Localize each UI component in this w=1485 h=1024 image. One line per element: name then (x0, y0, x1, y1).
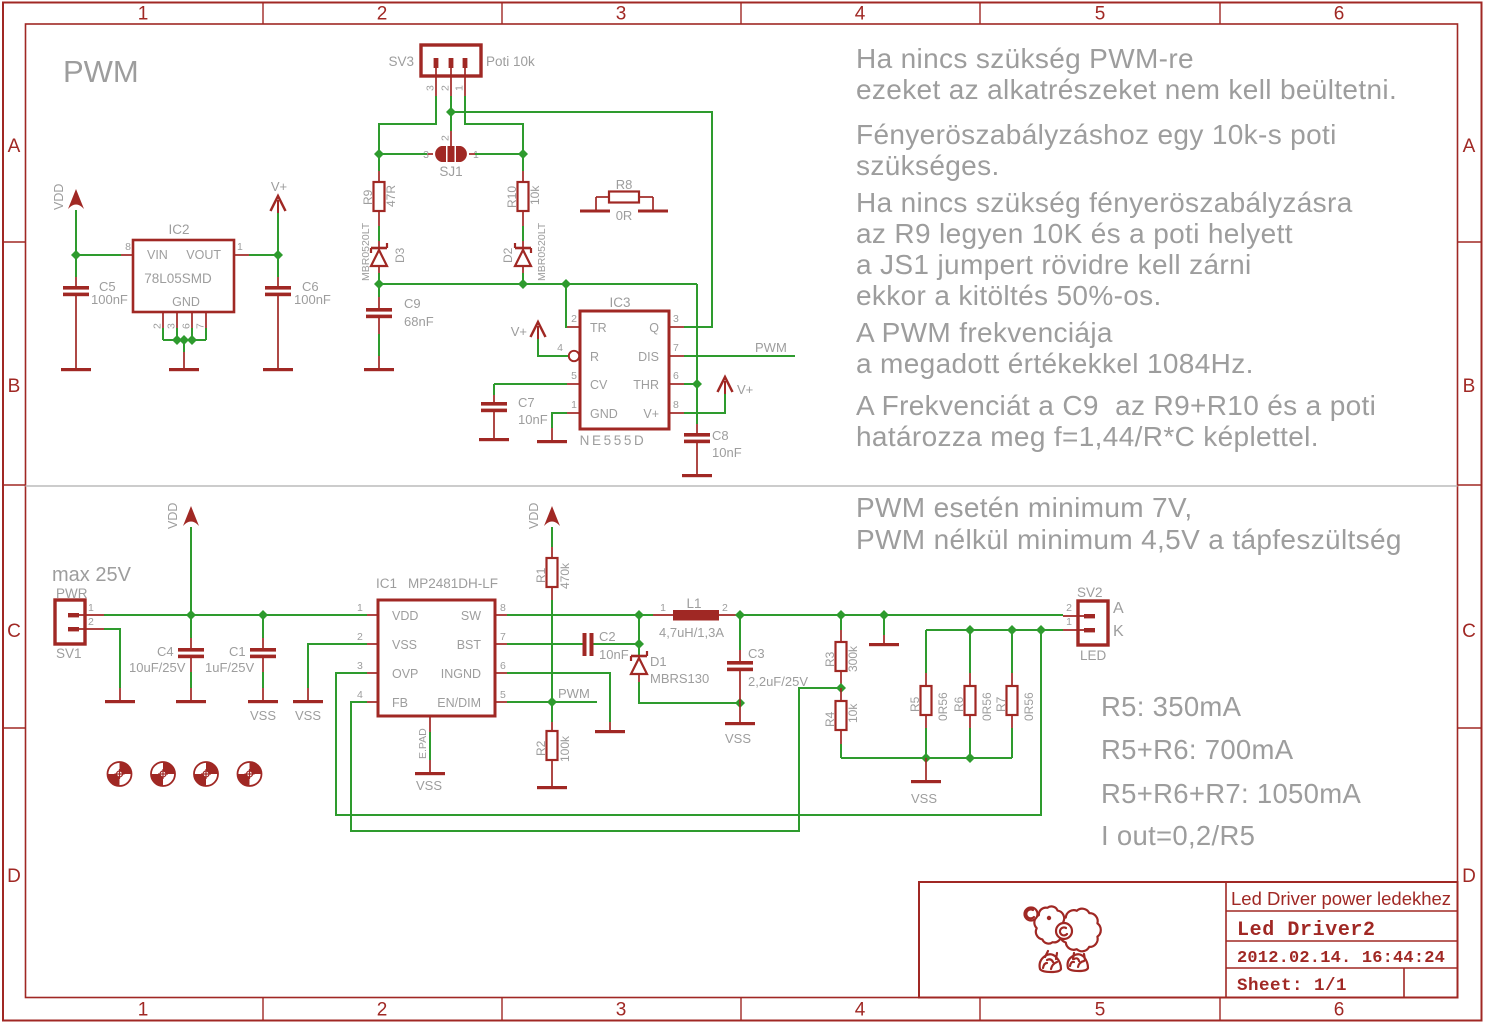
ground stub at output rail (883, 635, 885, 643)
svg-text:8: 8 (500, 602, 506, 614)
resistor R1 470k (534, 547, 572, 600)
svg-text:6: 6 (1334, 1000, 1345, 1021)
svg-text:szükséges.: szükséges. (856, 150, 1000, 181)
junction OVP tap (1036, 625, 1046, 635)
supply symbol VDD at IC2 input (52, 184, 84, 210)
junction R7 top (1007, 625, 1017, 635)
title block sheet number (1237, 976, 1347, 996)
junction gnd symbol tap (879, 610, 889, 620)
svg-text:2: 2 (377, 4, 388, 25)
ground stub IC3 GND (551, 428, 553, 440)
wire SV1 pin1 to IC1 VDD (104, 614, 367, 616)
junction R1/R2/ENDIM (547, 697, 557, 707)
svg-text:R2: R2 (534, 740, 548, 756)
svg-text:1: 1 (138, 4, 149, 25)
svg-text:1: 1 (571, 399, 577, 411)
wire L1 to SV2 anode (740, 614, 1063, 616)
junction SJ1 pin1 node (518, 149, 528, 159)
svg-text:SJ1: SJ1 (439, 164, 462, 179)
svg-text:VDD: VDD (527, 503, 541, 529)
svg-text:R4: R4 (823, 711, 837, 727)
title block date (1237, 949, 1445, 968)
svg-text:R6: R6 (952, 696, 966, 712)
svg-text:R10: R10 (505, 186, 519, 208)
svg-text:C1: C1 (229, 644, 246, 659)
svg-text:VDD: VDD (52, 184, 66, 210)
svg-text:Q: Q (649, 321, 659, 335)
frame column labels bottom (138, 1000, 1345, 1021)
connector SV3 Poti 10k (388, 45, 535, 96)
svg-text:OVP: OVP (392, 667, 418, 681)
svg-text:V+: V+ (511, 324, 527, 339)
wire SV3 pin2 to IC3 Q pin (451, 112, 712, 327)
wire node to IC2 VIN pin 8 (76, 254, 121, 256)
svg-text:MBR0520LT: MBR0520LT (360, 222, 372, 281)
svg-text:PWM: PWM (63, 54, 139, 89)
ground symbol below R2 (537, 786, 567, 789)
svg-text:10k: 10k (528, 185, 542, 205)
svg-text:1: 1 (357, 602, 363, 614)
title block project name (1231, 888, 1451, 909)
wire V+ to IC3 R pin 4 (538, 339, 568, 356)
svg-text:Fényeröszabályzáshoz egy 10k-s: Fényeröszabályzáshoz egy 10k-s poti (856, 119, 1337, 150)
svg-text:MBRS130: MBRS130 (650, 671, 709, 686)
junction IC2 gnd pins (172, 335, 182, 345)
svg-text:3: 3 (166, 323, 178, 329)
inductor L1 4,7uH/1,3A (653, 596, 740, 640)
svg-text:10nF: 10nF (712, 445, 742, 460)
net label PWM top (755, 340, 787, 355)
svg-text:4: 4 (855, 4, 866, 25)
voltage regulator IC2 78L05SMD (121, 222, 249, 329)
svg-text:2: 2 (440, 85, 452, 91)
svg-text:D3: D3 (393, 247, 407, 263)
wire RC node down to IC3 TR (566, 284, 567, 327)
svg-text:5: 5 (1095, 1000, 1106, 1021)
junction SJ1 pin3 node (374, 149, 384, 159)
svg-text:Ha nincs szükség PWM-re: Ha nincs szükség PWM-re (856, 43, 1194, 74)
ground symbol below C5 (61, 368, 91, 371)
svg-text:L1: L1 (686, 596, 701, 611)
svg-text:Poti 10k: Poti 10k (486, 54, 535, 69)
notes text block bottom (856, 492, 1402, 555)
frame row labels left (7, 136, 21, 887)
svg-text:47R: 47R (384, 185, 398, 207)
frame column labels top (138, 4, 1345, 25)
svg-text:VSS: VSS (416, 778, 442, 793)
svg-text:GND: GND (590, 407, 618, 421)
ground symbol VSS below C3 (725, 722, 755, 746)
svg-text:470k: 470k (558, 562, 572, 589)
resistor R3 300k (823, 615, 860, 688)
svg-text:3: 3 (616, 1000, 627, 1021)
svg-text:DIS: DIS (638, 350, 659, 364)
wire IC3 GND pin to ground (552, 413, 567, 428)
svg-text:B: B (1463, 376, 1476, 397)
IC1 exposed pad to VSS (417, 716, 430, 772)
net label PWM bottom (558, 686, 590, 701)
svg-text:6: 6 (500, 660, 506, 672)
wire VDD to input node (190, 527, 192, 615)
wire SJ1 pin3 to node (379, 153, 427, 155)
svg-text:3: 3 (357, 660, 363, 672)
capacitor C1 1uF/25V (205, 615, 276, 700)
wire SV3 pin3 to SJ1 pin3 node (379, 96, 436, 154)
svg-text:EN/DIM: EN/DIM (437, 696, 481, 710)
svg-text:D1: D1 (650, 654, 667, 669)
svg-text:VSS: VSS (911, 791, 937, 806)
fiducial mark 3 (194, 762, 218, 786)
diode D1 MBRS130 (631, 651, 740, 703)
junction VDD/C4 (186, 610, 196, 620)
wire IC1 INGND to ground (507, 673, 610, 722)
svg-text:4,7uH/1,3A: 4,7uH/1,3A (659, 625, 724, 640)
svg-text:INGND: INGND (441, 667, 481, 681)
svg-text:3: 3 (616, 4, 627, 25)
junction SW/D1 branch (634, 610, 644, 620)
svg-text:A PWM frekvenciája: A PWM frekvenciája (856, 317, 1113, 348)
svg-text:0R56: 0R56 (980, 692, 994, 721)
resistor R5 0R56 (908, 630, 950, 758)
svg-text:R5+R6+R7: 1050mA: R5+R6+R7: 1050mA (1101, 778, 1361, 809)
svg-text:2: 2 (152, 323, 164, 329)
ground symbol below C9 (364, 368, 394, 371)
svg-text:VSS: VSS (725, 731, 751, 746)
svg-text:az R9 legyen 10K és a poti hel: az R9 legyen 10K és a poti helyett (856, 218, 1293, 249)
svg-text:8: 8 (673, 399, 679, 411)
svg-text:D: D (1462, 866, 1476, 887)
svg-text:THR: THR (633, 378, 659, 392)
ground symbol below INGND (595, 730, 625, 733)
wire SV1 pin2 to ground (104, 629, 120, 688)
fiducial mark 1 (108, 762, 132, 786)
capacitor C7 10nF (481, 384, 567, 438)
connector SV1 PWR (55, 586, 104, 661)
svg-text:1: 1 (1066, 616, 1072, 628)
svg-text:2: 2 (440, 135, 452, 141)
svg-text:a megadott értékekkel 1084Hz.: a megadott értékekkel 1084Hz. (856, 348, 1254, 379)
junction D2 node (518, 279, 528, 289)
svg-text:6: 6 (1334, 4, 1345, 25)
fiducial mark 2 (151, 762, 175, 786)
ground symbol below IC3 GND (537, 440, 567, 443)
svg-text:R5: R5 (908, 696, 922, 712)
svg-text:0R: 0R (616, 208, 633, 223)
junction L1 out / C3 (735, 610, 745, 620)
svg-text:V+: V+ (271, 179, 287, 194)
capacitor C6 (265, 255, 331, 368)
wire IC1 SW to L1 (507, 614, 653, 616)
ground symbol VSS below IC1 pad (415, 772, 445, 793)
svg-text:1uF/25V: 1uF/25V (205, 660, 254, 675)
resistor R4 10k (823, 688, 860, 758)
PWM section heading (63, 54, 139, 89)
svg-text:1: 1 (88, 602, 94, 614)
junction TR branch (561, 279, 571, 289)
svg-text:C3: C3 (748, 646, 765, 661)
svg-text:VSS: VSS (392, 638, 417, 652)
resistor R9 47R (361, 154, 398, 226)
svg-text:5: 5 (571, 370, 577, 382)
capacitor C2 10nF bootstrap (583, 629, 629, 662)
svg-text:C: C (7, 621, 21, 642)
frame row labels right (1462, 136, 1476, 887)
svg-text:100k: 100k (558, 735, 572, 762)
svg-text:Led Driver power ledekhez: Led Driver power ledekhez (1231, 888, 1451, 909)
capacitor C9 68nF (366, 284, 434, 368)
svg-text:IC2: IC2 (168, 222, 189, 237)
svg-text:MP2481DH-LF: MP2481DH-LF (408, 576, 498, 591)
svg-text:VSS: VSS (295, 708, 321, 723)
ground symbol below SV1 (105, 700, 135, 703)
svg-text:SW: SW (461, 609, 481, 623)
LED driver IC1 MP2481DH-LF (357, 576, 507, 716)
svg-text:2012.02.14. 16:44:24: 2012.02.14. 16:44:24 (1237, 949, 1445, 968)
ground symbol below C6 (263, 368, 293, 371)
wire sense resistor bottom rail (841, 757, 1012, 759)
junction IC2 gnd pins 3 (187, 335, 197, 345)
svg-text:4: 4 (557, 342, 563, 354)
wire SW branch down (638, 615, 640, 656)
svg-text:PWM esetén minimum 7V,: PWM esetén minimum 7V, (856, 492, 1193, 523)
junction FB divider node (836, 683, 846, 693)
junction D3/C9 node (374, 279, 384, 289)
svg-text:2: 2 (377, 1000, 388, 1021)
svg-text:100nF: 100nF (91, 292, 128, 307)
svg-text:A Frekvenciát a C9 az R9+R10: A Frekvenciát a C9 az R9+R10 és a poti (856, 390, 1376, 421)
svg-text:8: 8 (125, 241, 131, 253)
wire VDD to node (75, 210, 77, 255)
wire VDD to R1 (551, 527, 553, 547)
svg-text:300k: 300k (846, 645, 860, 672)
svg-text:A: A (1113, 600, 1124, 617)
diode D3 MBR0520LT (360, 222, 407, 284)
svg-text:C: C (1462, 621, 1476, 642)
svg-text:2: 2 (88, 616, 94, 628)
solder jumper SJ1 (423, 131, 479, 179)
svg-text:GND: GND (172, 295, 200, 309)
ground symbol below IC2 (169, 368, 199, 371)
wire SV3 pin1 to SJ1 pin1 node (465, 96, 523, 154)
wire oscillator RC node (379, 283, 697, 285)
svg-text:3: 3 (425, 85, 437, 91)
svg-text:IC1: IC1 (376, 576, 397, 591)
svg-text:LED: LED (1080, 648, 1107, 663)
svg-text:BST: BST (457, 638, 482, 652)
wire IC3 DIS to PWM net (684, 355, 795, 357)
resistor R6 0R56 (952, 630, 994, 758)
svg-text:R1: R1 (534, 567, 548, 583)
svg-text:VDD: VDD (392, 609, 418, 623)
svg-text:0R56: 0R56 (1022, 692, 1036, 721)
svg-text:D: D (7, 866, 21, 887)
wire RC node to THR/C8 branch (696, 284, 698, 424)
junction C2/D1 (634, 639, 644, 649)
svg-text:4: 4 (357, 689, 363, 701)
ground stub INGND (609, 722, 611, 730)
svg-text:2: 2 (722, 602, 728, 614)
svg-text:V+: V+ (737, 382, 753, 397)
svg-text:VDD: VDD (166, 503, 180, 529)
wire IC1 BST to C2 (507, 643, 583, 645)
wire C2 to SW branch (594, 643, 640, 645)
svg-text:100nF: 100nF (294, 292, 331, 307)
svg-text:PWM: PWM (558, 686, 590, 701)
svg-text:7: 7 (500, 631, 506, 643)
svg-text:2,2uF/25V: 2,2uF/25V (748, 674, 808, 689)
capacitor C8 10nF (684, 424, 742, 474)
svg-text:R5+R6: 700mA: R5+R6: 700mA (1101, 734, 1294, 765)
junction C1 node (258, 610, 268, 620)
junction THR/C8 (692, 379, 702, 389)
supply symbol V+ at IC3 pin 8 (718, 377, 754, 397)
ground symbol VSS below C1 (248, 700, 278, 723)
capacitor C5 (63, 255, 128, 368)
svg-text:E.PAD: E.PAD (417, 728, 429, 759)
ground symbol below C7 (479, 438, 509, 441)
svg-text:2: 2 (357, 631, 363, 643)
svg-text:TR: TR (590, 321, 607, 335)
current table text (1101, 691, 1361, 851)
svg-text:7: 7 (673, 342, 679, 354)
svg-text:1: 1 (138, 1000, 149, 1021)
svg-text:V+: V+ (643, 407, 659, 421)
junction SV3 pin2 net (446, 107, 456, 117)
junction IC2 gnd pins 2 (179, 335, 189, 345)
wire IC1 VSS to ground (308, 644, 367, 688)
junction R5 bottom (921, 753, 931, 763)
supply symbol V+ at IC3 reset (511, 322, 546, 339)
svg-text:K: K (1113, 623, 1124, 640)
svg-text:C7: C7 (518, 395, 535, 410)
svg-text:SV1: SV1 (56, 646, 82, 661)
wire IC1 EN/DIM PWM net (507, 701, 597, 703)
svg-text:6: 6 (181, 323, 193, 329)
wire sense resistor top rail (926, 629, 1063, 631)
junction R6 top (965, 625, 975, 635)
node junction VDD/C5/VIN (71, 250, 81, 260)
svg-text:1: 1 (454, 85, 466, 91)
svg-text:10k: 10k (846, 703, 860, 723)
wire SV3 pin2 down (450, 96, 452, 131)
svg-text:ekkor a kitöltés 50%-os.: ekkor a kitöltés 50%-os. (856, 280, 1162, 311)
svg-text:R3: R3 (823, 651, 837, 667)
svg-text:R7: R7 (994, 696, 1008, 712)
wire C3 bottom to VSS (739, 703, 741, 722)
svg-text:B: B (8, 376, 21, 397)
junction D1/C3 bottom (735, 698, 745, 708)
svg-text:VSS: VSS (250, 708, 276, 723)
svg-text:5: 5 (1095, 4, 1106, 25)
svg-text:PWM nélkül minimum 4,5V a tápf: PWM nélkül minimum 4,5V a tápfeszültség (856, 524, 1402, 555)
svg-text:R8: R8 (616, 177, 633, 192)
svg-text:Led Driver2: Led Driver2 (1237, 919, 1376, 942)
resistor R8 0R (580, 177, 668, 223)
diode D2 MBR0520LT (501, 222, 548, 284)
svg-text:1: 1 (237, 241, 243, 253)
notes text block top right (856, 43, 1397, 452)
svg-text:68nF: 68nF (404, 314, 434, 329)
ground symbol VSS below R5 (911, 780, 941, 806)
svg-text:SV3: SV3 (388, 54, 414, 69)
connector SV2 LED (1063, 585, 1124, 663)
svg-text:4: 4 (855, 1000, 866, 1021)
wire gnd symbol drop (883, 615, 885, 635)
wire SJ1 pin1 to node (475, 153, 523, 155)
svg-text:D2: D2 (501, 247, 515, 263)
svg-text:A: A (1463, 136, 1476, 157)
section divider line (26, 485, 1458, 487)
svg-text:CV: CV (590, 378, 608, 392)
svg-text:10uF/25V: 10uF/25V (129, 660, 186, 675)
title block frame (919, 882, 1458, 998)
wire IC1 FB to R3/R4 divider (351, 688, 841, 831)
svg-text:A: A (8, 136, 21, 157)
svg-text:C8: C8 (712, 428, 729, 443)
junction R6 bottom (965, 753, 975, 763)
svg-text:R: R (590, 350, 599, 364)
svg-text:0R56: 0R56 (936, 692, 950, 721)
resistor R2 100k (534, 702, 572, 786)
capacitor C4 10uF/25V (129, 615, 204, 700)
svg-text:ezeket az alkatrészeket nem ke: ezeket az alkatrészeket nem kell beültet… (856, 74, 1397, 105)
wire IC1 OVP to LED cathode rail (336, 630, 1041, 815)
svg-text:2: 2 (571, 313, 577, 325)
svg-text:Sheet: 1/1: Sheet: 1/1 (1237, 976, 1347, 996)
junction R3 tap (836, 610, 846, 620)
svg-text:C2: C2 (599, 629, 616, 644)
svg-text:I out=0,2/R5: I out=0,2/R5 (1101, 820, 1255, 851)
ground symbol below C8 (682, 474, 712, 477)
svg-text:10nF: 10nF (599, 647, 629, 662)
wire IC3 V+ pin to V+ arrow (684, 394, 725, 413)
svg-text:5: 5 (500, 689, 506, 701)
fiducial mark 4 (238, 762, 262, 786)
svg-text:3: 3 (673, 313, 679, 325)
svg-text:IC3: IC3 (609, 295, 630, 310)
supply symbol V+ at IC2 output (271, 179, 288, 255)
title block drawing name (1237, 919, 1376, 942)
wire IC2 VOUT to V+ node (249, 254, 278, 256)
svg-text:78L05SMD: 78L05SMD (144, 271, 212, 286)
svg-text:Ha nincs szükség fényeröszabál: Ha nincs szükség fényeröszabályzásra (856, 187, 1353, 218)
svg-text:10nF: 10nF (518, 412, 548, 427)
svg-text:1: 1 (660, 602, 666, 614)
sheep logo (1025, 906, 1101, 972)
ground stub SV1 pin2 (119, 688, 121, 700)
svg-text:SV2: SV2 (1077, 585, 1103, 600)
wire IC3 THR junction (684, 383, 697, 385)
supply symbol VDD at R1 (527, 503, 560, 529)
svg-text:R9: R9 (361, 189, 375, 205)
svg-text:C4: C4 (157, 644, 174, 659)
svg-text:a JS1 jumpert rövidre kell zár: a JS1 jumpert rövidre kell zárni (856, 249, 1252, 280)
wire IC2 ground pins to ground (163, 328, 206, 368)
node junction VOUT/V+/C6 (273, 250, 283, 260)
ground stub below R5 (925, 758, 927, 780)
svg-text:VIN: VIN (147, 248, 168, 262)
timer IC3 NE555D (557, 295, 684, 448)
svg-text:FB: FB (392, 696, 408, 710)
ground symbol at output rail (869, 643, 899, 646)
svg-text:2: 2 (1066, 602, 1072, 614)
svg-text:NE555D: NE555D (580, 433, 647, 448)
svg-text:6: 6 (673, 370, 679, 382)
text max 25V (52, 564, 132, 586)
svg-text:7: 7 (195, 323, 207, 329)
svg-text:határozza meg f=1,44/R*C képle: határozza meg f=1,44/R*C képlettel. (856, 421, 1319, 452)
svg-text:VOUT: VOUT (186, 248, 221, 262)
